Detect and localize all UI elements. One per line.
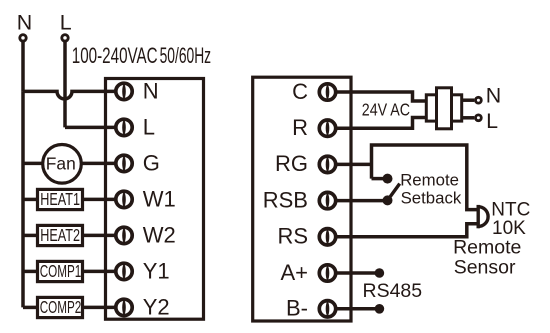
wire RSB to switch bottom contact	[336, 199, 385, 203]
switch blade	[388, 184, 400, 201]
screw terminal N	[116, 83, 132, 100]
wire HEAT1 to terminal W1	[84, 198, 116, 202]
svg-text:HEAT2: HEAT2	[40, 225, 80, 245]
wire setback loop (left vertical, top, right vertical)	[372, 145, 478, 210]
wire RS to sensor	[336, 224, 478, 237]
terminal L mains (open circle)	[62, 35, 68, 41]
wire fan to bus	[23, 162, 44, 166]
wire RG to setback loop	[336, 163, 372, 167]
svg-text:W1: W1	[143, 187, 176, 212]
wire C to transformer (with step)	[336, 92, 428, 101]
wire HEAT2 to terminal W2	[84, 234, 116, 238]
screw terminal W2	[116, 227, 132, 244]
screw terminal Y1	[116, 263, 132, 280]
wire transformer to N output	[462, 98, 475, 102]
wire to switch top contact	[372, 177, 386, 181]
svg-text:COMP2: COMP2	[40, 297, 82, 317]
fan load (circle)	[43, 145, 82, 184]
transformer left cap	[426, 95, 436, 121]
svg-text:RS485: RS485	[363, 280, 423, 302]
wire fan to terminal G	[81, 162, 116, 166]
svg-text:Sensor: Sensor	[454, 257, 516, 279]
load COMP1 (box)	[38, 261, 83, 281]
svg-text:L: L	[143, 115, 155, 140]
load COMP2 (box)	[38, 297, 83, 317]
svg-text:RSB: RSB	[263, 187, 308, 212]
wire L vertical drop	[63, 41, 67, 127]
screw terminal G	[116, 155, 132, 172]
screw terminal C	[319, 84, 335, 101]
svg-text:N: N	[17, 10, 32, 34]
sensor NTC (half-round)	[478, 205, 488, 228]
wire COMP1 to bus	[23, 270, 36, 274]
screw terminal RG	[319, 156, 335, 173]
load HEAT1 (box)	[38, 189, 83, 209]
svg-text:N: N	[143, 79, 159, 104]
screw terminal L	[116, 119, 132, 136]
wire HEAT2 to bus	[23, 234, 36, 238]
screw terminal B-	[319, 301, 335, 318]
svg-text:HEAT1: HEAT1	[40, 189, 80, 209]
wire N bus vertical (left side)	[21, 91, 25, 307]
svg-text:L: L	[60, 10, 72, 34]
svg-text:RS: RS	[277, 224, 308, 249]
screw terminal RSB	[319, 192, 335, 209]
node B- (dot)	[375, 304, 385, 314]
svg-text:Remote: Remote	[400, 171, 459, 190]
svg-text:R: R	[292, 115, 308, 140]
transformer right cap	[452, 95, 462, 121]
load HEAT2 (box)	[38, 225, 83, 245]
svg-text:Remote: Remote	[453, 237, 521, 259]
terminal N output (open circle)	[476, 97, 482, 103]
terminal L output (open circle)	[476, 115, 482, 121]
svg-text:L: L	[486, 109, 498, 133]
wire transformer to L output	[462, 116, 475, 120]
svg-text:B-: B-	[286, 295, 308, 320]
wire COMP2 to bus	[23, 306, 36, 310]
screw terminal RS	[319, 229, 335, 246]
svg-text:RG: RG	[275, 151, 308, 176]
wire L horizontal to terminal L	[65, 126, 116, 130]
screw terminal Y2	[116, 299, 132, 316]
svg-text:COMP1: COMP1	[40, 261, 82, 281]
svg-text:Fan: Fan	[46, 154, 76, 174]
left terminal block outline	[106, 79, 204, 320]
svg-text:G: G	[143, 151, 160, 176]
wire R to transformer (with step)	[336, 118, 428, 129]
right terminal block outline	[253, 77, 351, 321]
svg-text:Setback: Setback	[401, 188, 462, 207]
switch top contact (dot)	[383, 174, 393, 184]
terminal N mains (open circle)	[20, 35, 26, 41]
wire N vertical drop	[21, 41, 25, 91]
svg-text:50/60Hz: 50/60Hz	[160, 43, 212, 68]
wire HEAT1 to bus	[23, 198, 36, 202]
wire A+ to RS485	[336, 271, 376, 275]
svg-text:Y1: Y1	[143, 259, 170, 284]
node A+ (dot)	[375, 268, 385, 278]
svg-text:W2: W2	[143, 223, 176, 248]
wire B- to RS485	[336, 307, 376, 311]
screw terminal R	[319, 120, 335, 137]
svg-text:100-240VAC: 100-240VAC	[72, 43, 158, 68]
transformer core (big rect)	[437, 88, 452, 129]
svg-text:24V AC: 24V AC	[362, 99, 410, 119]
svg-text:Y2: Y2	[143, 295, 170, 320]
wire COMP1 to terminal Y1	[84, 270, 116, 274]
svg-text:N: N	[486, 83, 501, 107]
svg-text:C: C	[292, 79, 308, 104]
wire COMP2 to terminal Y2	[84, 306, 116, 310]
switch bottom contact (dot)	[383, 195, 393, 205]
svg-text:A+: A+	[280, 260, 308, 285]
screw terminal A+	[319, 265, 335, 282]
wire N horizontal to terminal N (with crossover hop at L wire)	[23, 91, 116, 99]
screw terminal W1	[116, 191, 132, 208]
